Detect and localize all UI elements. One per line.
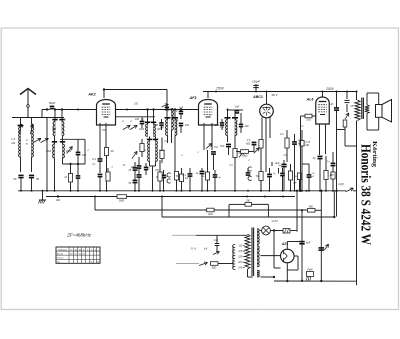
wire below ABC1 [261, 118, 263, 140]
resistor [179, 174, 183, 182]
coil L2 [32, 124, 34, 157]
wire [99, 123, 101, 158]
svg-text:1000: 1000 [139, 129, 145, 131]
svg-text:240: 240 [237, 267, 243, 270]
measurement table [56, 247, 100, 263]
resistor 1k [106, 172, 110, 181]
dial lamp [260, 230, 262, 232]
coil osc L3 [52, 141, 57, 143]
capacitor [76, 175, 81, 177]
svg-text:ABC1: ABC1 [252, 95, 263, 99]
wire tube bottom [319, 124, 321, 155]
heater wire [261, 276, 275, 278]
osc coil right [172, 109, 174, 131]
svg-text:0,1: 0,1 [92, 157, 96, 161]
svg-text:50: 50 [13, 177, 17, 181]
svg-text:MΩ: MΩ [246, 143, 250, 146]
junction dots top bus [215, 91, 217, 93]
resistor [160, 151, 164, 159]
voltage selector [232, 246, 234, 268]
wire [203, 91, 356, 93]
switch [239, 151, 244, 158]
svg-text:Honoris 38 S 4242 W: Honoris 38 S 4242 W [358, 144, 373, 245]
svg-text:5nF: 5nF [220, 145, 225, 148]
bottom bus [274, 280, 357, 282]
coil L1 [20, 124, 22, 134]
wire anode bus [104, 89, 167, 91]
resistor 0.15M [300, 141, 304, 147]
secondary heater [257, 270, 259, 277]
junction dots ground bus [20, 190, 22, 192]
junction 400 [57, 195, 59, 197]
osc coil pair lower [147, 138, 152, 140]
bus 3 [94, 197, 96, 211]
wire loop [60, 138, 85, 140]
svg-text:AK2: AK2 [87, 93, 95, 97]
capacitor [280, 172, 285, 174]
svg-text:1MΩ: 1MΩ [119, 199, 125, 203]
wire [20, 157, 22, 172]
wire [46, 118, 48, 191]
capacitor 100pF [255, 84, 257, 92]
resistor [331, 172, 335, 179]
resistor [158, 172, 162, 181]
svg-text:6kΩ: 6kΩ [208, 213, 213, 216]
capacitor 250 [220, 122, 224, 124]
bus 2 [46, 196, 117, 198]
resistor 50k [205, 172, 209, 180]
capacitor 10nF [334, 107, 339, 109]
svg-text:100: 100 [52, 128, 57, 131]
svg-text:50kΩ: 50kΩ [242, 155, 248, 158]
capacitor right [179, 122, 183, 124]
capacitor 0.1uF [161, 174, 166, 176]
resistor 10k [297, 173, 301, 180]
svg-text:0,15: 0,15 [306, 142, 311, 144]
wire [227, 136, 229, 143]
bus 4 [161, 197, 163, 218]
wire [300, 116, 302, 191]
wire [266, 92, 268, 105]
capacitor 1.5uF [307, 174, 312, 176]
resistor 0.3 [233, 149, 237, 158]
switch contacts [123, 125, 130, 129]
capacitor 100 [140, 120, 145, 122]
capacitor 5nF [226, 143, 231, 145]
svg-text:≈6,3V: ≈6,3V [271, 220, 278, 223]
wire primary down [356, 121, 358, 286]
resistor 40k [104, 148, 108, 156]
junction dots bus2 [94, 196, 96, 198]
IF transformer T3 [227, 110, 229, 120]
wire [167, 136, 169, 144]
capacitor 5nF pair [133, 167, 138, 169]
capacitor 0.1uF [267, 173, 272, 175]
svg-text:100: 100 [135, 118, 140, 121]
svg-text:50Ω: 50Ω [212, 267, 217, 270]
capacitor 250 [137, 165, 142, 167]
wire sec to AZ1 [261, 255, 281, 257]
capacitor [252, 141, 257, 143]
top leads for row components [107, 168, 109, 172]
svg-text:TA: TA [256, 174, 259, 178]
svg-text:1kΩ: 1kΩ [306, 119, 311, 122]
output transformer secondary [365, 105, 369, 114]
wire top-left bus [12, 117, 64, 119]
capacitor [239, 123, 243, 125]
wire B+ to output transformer [356, 92, 358, 101]
svg-text:AL4: AL4 [306, 98, 314, 102]
capacitor on 167 line [165, 106, 169, 108]
osc coil pair [147, 110, 149, 125]
svg-text:50: 50 [36, 177, 40, 181]
resistor FeH [270, 230, 283, 232]
band switch S1 [33, 138, 41, 142]
svg-text:250V: 250V [215, 87, 224, 91]
resistor [259, 172, 263, 181]
svg-text:100: 100 [245, 125, 250, 128]
ground symbol [42, 191, 44, 200]
svg-text:200: 200 [70, 254, 73, 256]
resistor 50ohm [211, 262, 219, 266]
svg-text:250V: 250V [325, 87, 334, 91]
wire 250 link [229, 203, 245, 205]
resistor FeW [307, 272, 314, 277]
capacitor [292, 141, 297, 143]
svg-text:400: 400 [56, 199, 61, 202]
capacitor 1nF [235, 110, 239, 112]
resistor 2k [68, 174, 72, 183]
svg-text:4µF: 4µF [275, 161, 280, 165]
switch [67, 147, 73, 154]
secondary HT top [257, 229, 259, 245]
svg-text:250: 250 [153, 124, 159, 127]
junction dots [146, 108, 148, 110]
resistor 0.3M [285, 138, 289, 148]
capacitor [246, 172, 251, 174]
junction dots [54, 108, 56, 110]
capacitor 1nF [179, 110, 183, 112]
capacitor [188, 173, 193, 175]
switch [206, 143, 212, 148]
speaker [376, 105, 383, 118]
svg-text:250: 250 [82, 254, 85, 256]
resistor [324, 171, 328, 180]
capacitor 0.1 [98, 158, 103, 160]
TA jacks [167, 173, 171, 177]
wire cathode [203, 123, 205, 150]
svg-text:150: 150 [330, 174, 335, 177]
capacitor 4uF [318, 155, 323, 157]
resistor 6k inline [207, 208, 214, 212]
output transformer primary [355, 100, 360, 121]
capacitor 100 [76, 151, 81, 153]
capacitor 5uF [213, 174, 218, 176]
power transformer primary [245, 234, 250, 269]
svg-text:50pF: 50pF [49, 101, 56, 105]
svg-text:MΩ: MΩ [306, 145, 310, 147]
capacitor 1uF [331, 162, 336, 164]
wire [260, 148, 262, 191]
svg-text:Gehäuse: Gehäuse [58, 249, 68, 251]
wire speaker loop [366, 93, 368, 105]
resistor [259, 140, 263, 149]
resistor [140, 144, 144, 152]
capacitor 50pF [18, 174, 23, 176]
svg-text:90: 90 [75, 254, 77, 256]
wire AZ1 anode top [286, 242, 288, 250]
wire [228, 109, 244, 111]
IF transformer T2 [167, 118, 169, 120]
junction dots RF bus [61, 109, 63, 111]
capacitor 50pF antenna [41, 110, 43, 118]
svg-text:AF3: AF3 [189, 96, 197, 100]
svg-text:250: 250 [101, 130, 107, 132]
switch [254, 148, 260, 154]
verticals right [296, 191, 298, 232]
svg-text:TA: TA [176, 174, 179, 178]
svg-text:L4: L4 [204, 247, 208, 251]
svg-text:ZF=488kHz: ZF=488kHz [66, 233, 92, 238]
svg-text:250: 250 [154, 170, 160, 172]
ground bus [18, 190, 346, 192]
capacitor [200, 170, 205, 172]
capacitor 4uF electrolytic [281, 163, 286, 165]
svg-text:90: 90 [79, 254, 81, 256]
transformer core [361, 98, 363, 120]
svg-text:Anode: Anode [57, 253, 64, 256]
svg-text:5nF: 5nF [214, 147, 219, 149]
svg-text:1000: 1000 [46, 151, 52, 153]
capacitor 5nF [211, 151, 216, 153]
svg-text:220: 220 [237, 262, 243, 264]
wire mains top [172, 234, 196, 236]
wire [346, 92, 348, 100]
resistor 50k inline [236, 151, 241, 153]
svg-text:250: 250 [245, 200, 251, 203]
wire RF bus [42, 109, 50, 111]
switch [132, 151, 137, 158]
svg-text:1nF: 1nF [235, 105, 240, 109]
wire grid [116, 116, 155, 118]
wire [149, 162, 151, 167]
wire lamp to AZ1 [273, 231, 275, 269]
capacitor 250 [159, 122, 163, 124]
resistor 40k [174, 172, 178, 181]
svg-text:100: 100 [185, 124, 190, 127]
resistor 1k grid [301, 115, 306, 117]
wire AZ1 loop [294, 255, 298, 257]
svg-text:1nF: 1nF [214, 239, 219, 242]
svg-text:4µF: 4µF [306, 242, 311, 245]
svg-text:100: 100 [82, 154, 87, 157]
svg-text:RI W: RI W [191, 247, 197, 251]
IF transformer T1 [54, 110, 56, 122]
svg-text:50Ω: 50Ω [309, 206, 314, 209]
svg-text:250: 250 [214, 124, 220, 127]
mains switch on bus [346, 188, 354, 192]
secondary HT bottom [257, 246, 259, 267]
mains switch [176, 263, 199, 265]
svg-text:100pF: 100pF [252, 80, 260, 84]
resistor 2k [288, 171, 292, 180]
svg-text:FeW: FeW [307, 269, 313, 272]
svg-text:Schirm: Schirm [57, 257, 64, 260]
antenna [20, 89, 36, 95]
transformer core [251, 228, 253, 277]
